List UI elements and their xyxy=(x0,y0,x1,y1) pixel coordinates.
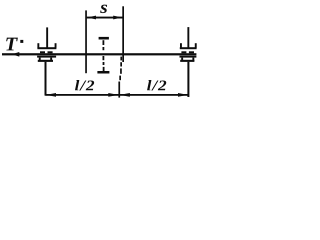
star superscript of T* xyxy=(20,40,23,43)
label T of T* xyxy=(6,38,18,51)
bearing right: upper bracket bar xyxy=(180,47,197,49)
bearing left: upper tick outer xyxy=(37,43,39,48)
label l/2 left xyxy=(75,80,94,90)
bearing left: lower bar xyxy=(37,56,56,58)
bearing left: pad above shaft A xyxy=(40,51,45,53)
bearing left: support line xyxy=(46,27,48,48)
bearing right: upper tick outer xyxy=(195,43,197,48)
dimension l/2 right arrow of left span xyxy=(108,93,118,97)
disc bottom bar xyxy=(97,71,109,74)
bearing left: pad above shaft B xyxy=(48,51,53,53)
dimension l/2 left arrow of left span xyxy=(46,93,56,97)
bearing left: upper tick inner xyxy=(55,43,57,48)
dimension s: left extension line xyxy=(85,10,87,73)
bearing right: upper tick inner xyxy=(180,43,182,48)
bearing left: lower tick B xyxy=(50,58,52,61)
dimension s: right arrow xyxy=(113,16,122,20)
wire shaft axis line with torque tail xyxy=(2,53,196,55)
beam midline dashes xyxy=(120,57,122,61)
label l/2 right xyxy=(147,80,166,90)
bearing right: lower tick B xyxy=(192,58,194,61)
bearing right: lower bar xyxy=(180,56,197,58)
disc centerline dashes xyxy=(103,40,105,45)
dimension s: line xyxy=(87,17,123,19)
disc top bar xyxy=(99,37,109,40)
dimension s: right extension line xyxy=(122,6,124,62)
bearing left: upper bracket bar xyxy=(37,47,56,49)
dimension l/2 right arrow of right span xyxy=(178,93,188,97)
bearing right: pad above shaft B xyxy=(189,51,194,53)
beam midline solid bottom xyxy=(118,82,120,98)
torque arrowhead T* pointing left xyxy=(12,52,19,57)
bearing right: support line xyxy=(187,27,189,48)
bearing right: stem + dimension extension xyxy=(187,62,189,97)
dimension l/2 line xyxy=(45,94,188,96)
bearing right: pad above shaft A xyxy=(181,51,186,53)
bearing left: lower tick A xyxy=(39,58,41,61)
label s xyxy=(100,5,107,13)
bearing right: T-bar xyxy=(180,60,194,62)
dimension s: left arrow xyxy=(87,16,96,20)
bearing left: stem + dimension extension xyxy=(45,62,47,96)
bearing left: T-bar xyxy=(38,60,53,62)
bearing right: lower tick A xyxy=(181,58,183,61)
dimension l/2 left arrow of right span xyxy=(120,93,130,97)
